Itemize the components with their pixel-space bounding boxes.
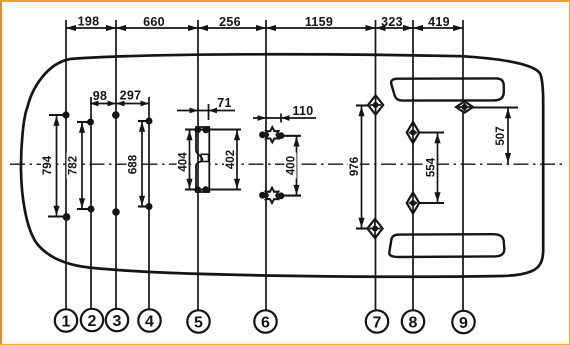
- dimension 400 arrow: [296, 136, 298, 196]
- svg-text:7: 7: [373, 314, 382, 331]
- svg-text:782: 782: [68, 156, 80, 175]
- dimension 323 arrows: [376, 25, 414, 31]
- dimension 688 arrow: [141, 121, 143, 207]
- callout circle 9: [452, 311, 474, 333]
- label 782: [67, 153, 80, 179]
- point 8 bottom bar: [419, 202, 444, 204]
- mount 6 top bar: [279, 135, 301, 137]
- point 9 diamond: [456, 101, 473, 112]
- dimension 98 297 line: [90, 103, 149, 105]
- point 4 upper bar: [138, 120, 151, 122]
- point 4 upper mark: [146, 118, 153, 125]
- point 4 lower bar: [138, 205, 151, 207]
- svg-text:4: 4: [145, 313, 154, 330]
- point 3 upper mark: [112, 111, 120, 119]
- callout circle 4: [138, 309, 160, 331]
- callout circle 3: [106, 309, 128, 331]
- label 507: [494, 123, 507, 149]
- svg-text:5: 5: [194, 314, 203, 331]
- callout circle 2: [81, 309, 103, 331]
- dimension 198 arrows: [66, 25, 116, 31]
- svg-text:660: 660: [143, 15, 165, 29]
- svg-text:71: 71: [217, 96, 232, 110]
- point 8 upper diamond: [407, 122, 419, 143]
- callout circle 6: [254, 310, 276, 332]
- dimension 976 arrow: [361, 106, 363, 229]
- point 3 lower mark: [112, 208, 120, 216]
- svg-text:297: 297: [120, 89, 142, 103]
- extension line node 9: [462, 20, 464, 311]
- mount 6 bottom bar: [279, 195, 301, 197]
- svg-text:400: 400: [286, 156, 298, 175]
- extension line node 1: [65, 20, 67, 310]
- dimension 419 arrows: [413, 25, 463, 31]
- point 2 upper mark: [87, 119, 94, 126]
- svg-text:256: 256: [219, 15, 241, 29]
- svg-text:419: 419: [428, 15, 450, 29]
- sill panel top-right: [391, 78, 504, 100]
- dimension 71 line: [177, 110, 235, 112]
- point 4 lower mark: [146, 203, 153, 210]
- plate bottom bar: [185, 188, 241, 190]
- extension line node 7: [375, 20, 377, 311]
- callout circle 7: [366, 310, 388, 332]
- svg-text:554: 554: [426, 157, 438, 177]
- svg-text:507: 507: [495, 126, 507, 145]
- point 1 upper bar: [49, 114, 68, 116]
- svg-text:8: 8: [409, 314, 418, 331]
- svg-text:1159: 1159: [305, 15, 333, 29]
- dimension 507 arrow: [507, 108, 509, 164]
- point 8 lower diamond: [407, 192, 419, 213]
- dimension 660 arrows: [116, 25, 198, 31]
- dimension 110 arrows: [258, 115, 290, 121]
- extension line node 3: [115, 20, 117, 309]
- callout circle 1: [55, 309, 77, 331]
- label 794: [41, 153, 54, 179]
- dimension 1159 arrows: [266, 25, 376, 31]
- point 7 lower diamond: [367, 219, 382, 238]
- point 2 upper bar: [77, 121, 92, 123]
- dimension 71 arrows: [190, 108, 218, 114]
- dimension 404 arrow: [189, 130, 191, 190]
- svg-text:402: 402: [225, 150, 237, 169]
- callout circle 5: [187, 310, 209, 332]
- point 7 bottom bar: [356, 227, 369, 229]
- svg-text:2: 2: [88, 313, 97, 330]
- point 1 lower bar: [48, 215, 69, 217]
- extension line node 2: [90, 97, 92, 309]
- svg-text:794: 794: [42, 155, 54, 175]
- top dimension line: [66, 27, 463, 29]
- point 1 lower mark: [63, 213, 71, 221]
- extension line node 6: [265, 20, 267, 311]
- point 8 top bar: [419, 131, 444, 133]
- extension line node 5: [197, 20, 199, 311]
- dimension 110 line: [253, 117, 316, 119]
- svg-text:6: 6: [261, 314, 270, 331]
- dimension 110 tick: [280, 114, 282, 123]
- mount 6 upper star: [259, 127, 284, 142]
- mount 6 lower star: [259, 188, 284, 203]
- svg-text:688: 688: [128, 154, 140, 174]
- svg-text:323: 323: [381, 15, 403, 29]
- point 2 lower mark: [88, 206, 95, 213]
- dimension 782 arrow: [81, 122, 83, 209]
- svg-text:98: 98: [93, 89, 108, 103]
- plate inner detail: [201, 154, 208, 161]
- label 404: [177, 149, 190, 175]
- plate corner dots: [194, 126, 209, 193]
- svg-text:1: 1: [62, 313, 71, 330]
- dimension 554 arrow: [437, 133, 439, 204]
- svg-text:198: 198: [78, 15, 100, 29]
- label 976: [348, 154, 361, 180]
- dimension 402 arrow: [236, 130, 238, 190]
- point 7 top bar: [356, 104, 369, 106]
- dimension 256 arrows: [198, 25, 266, 31]
- dimension 297 arrows: [116, 101, 149, 107]
- svg-text:110: 110: [292, 104, 313, 118]
- engine crossmember plate: [196, 127, 209, 192]
- label 400: [285, 153, 298, 179]
- point 1 upper mark: [62, 111, 69, 118]
- point 2 lower bar: [77, 208, 93, 210]
- svg-text:3: 3: [113, 313, 122, 330]
- extension line node 4: [148, 97, 150, 310]
- svg-text:976: 976: [349, 157, 361, 176]
- point 9 bar: [470, 106, 518, 108]
- extension line node 8: [412, 20, 414, 311]
- svg-text:404: 404: [178, 152, 190, 172]
- centerline axis: [10, 163, 562, 165]
- dimension 71 tick: [208, 104, 210, 120]
- label 688: [127, 152, 140, 178]
- plate top bar: [185, 128, 241, 130]
- point 7 upper diamond: [368, 95, 383, 114]
- svg-text:9: 9: [459, 315, 468, 332]
- label 402: [224, 147, 237, 173]
- dimension 794 arrow: [56, 115, 58, 217]
- car body outline: [21, 54, 543, 276]
- sill panel bottom-right: [389, 234, 504, 257]
- dimension 98 arrows: [90, 101, 116, 107]
- label 554: [425, 155, 438, 181]
- callout circle 8: [402, 310, 424, 332]
